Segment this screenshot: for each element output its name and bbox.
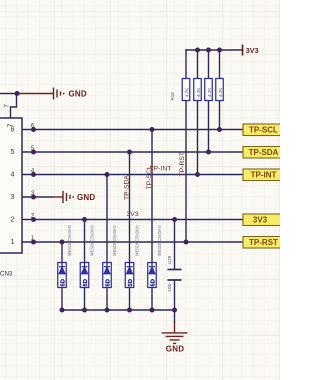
svg-text:5D: 5D [105, 279, 111, 286]
svg-text:R18: R18 [170, 92, 175, 101]
svg-text:TP-INT: TP-INT [150, 166, 172, 173]
svg-text:2: 2 [11, 214, 15, 223]
svg-text:4.7K: 4.7K [196, 88, 201, 97]
svg-text:MESDLC5V0AN: MESDLC5V0AN [157, 225, 162, 256]
svg-text:3V3: 3V3 [246, 46, 259, 55]
svg-text:TP-SDA: TP-SDA [249, 148, 279, 157]
svg-text:5D: 5D [83, 279, 89, 286]
svg-text:5D: 5D [150, 279, 156, 286]
svg-text:MESDLC5V0AN: MESDLC5V0AN [90, 225, 95, 256]
svg-text:TP-RST: TP-RST [179, 152, 186, 177]
svg-text:106: 106 [167, 283, 172, 291]
svg-text:7: 7 [6, 124, 15, 128]
svg-text:4: 4 [11, 169, 15, 178]
svg-text:MESDLC5V0AN: MESDLC5V0AN [67, 225, 72, 256]
svg-text:GND: GND [69, 90, 87, 99]
svg-text:TP-SCL: TP-SCL [249, 126, 278, 135]
svg-text:5D: 5D [128, 279, 134, 286]
svg-text:TP-RST: TP-RST [249, 238, 278, 247]
svg-text:MESDLC5V0AN: MESDLC5V0AN [112, 225, 117, 256]
svg-text:C39: C39 [167, 255, 172, 264]
svg-text:1: 1 [11, 237, 15, 246]
svg-text:7: 7 [5, 104, 11, 108]
svg-text:5D: 5D [60, 279, 66, 286]
svg-text:TP-SDA: TP-SDA [124, 175, 131, 200]
svg-text:3V3: 3V3 [253, 216, 268, 225]
svg-text:4.7K: 4.7K [184, 88, 189, 97]
svg-text:CN3: CN3 [0, 271, 13, 278]
svg-text:3: 3 [11, 192, 15, 201]
svg-text:GND: GND [77, 193, 95, 202]
svg-text:3V3: 3V3 [127, 211, 139, 218]
svg-text:GND: GND [166, 345, 184, 354]
svg-text:TP-INT: TP-INT [251, 171, 277, 180]
svg-text:4.7K: 4.7K [207, 88, 212, 97]
svg-text:4.7K: 4.7K [218, 88, 223, 97]
svg-text:MESDLC5V0AN: MESDLC5V0AN [135, 225, 140, 256]
svg-text:5: 5 [11, 147, 15, 156]
